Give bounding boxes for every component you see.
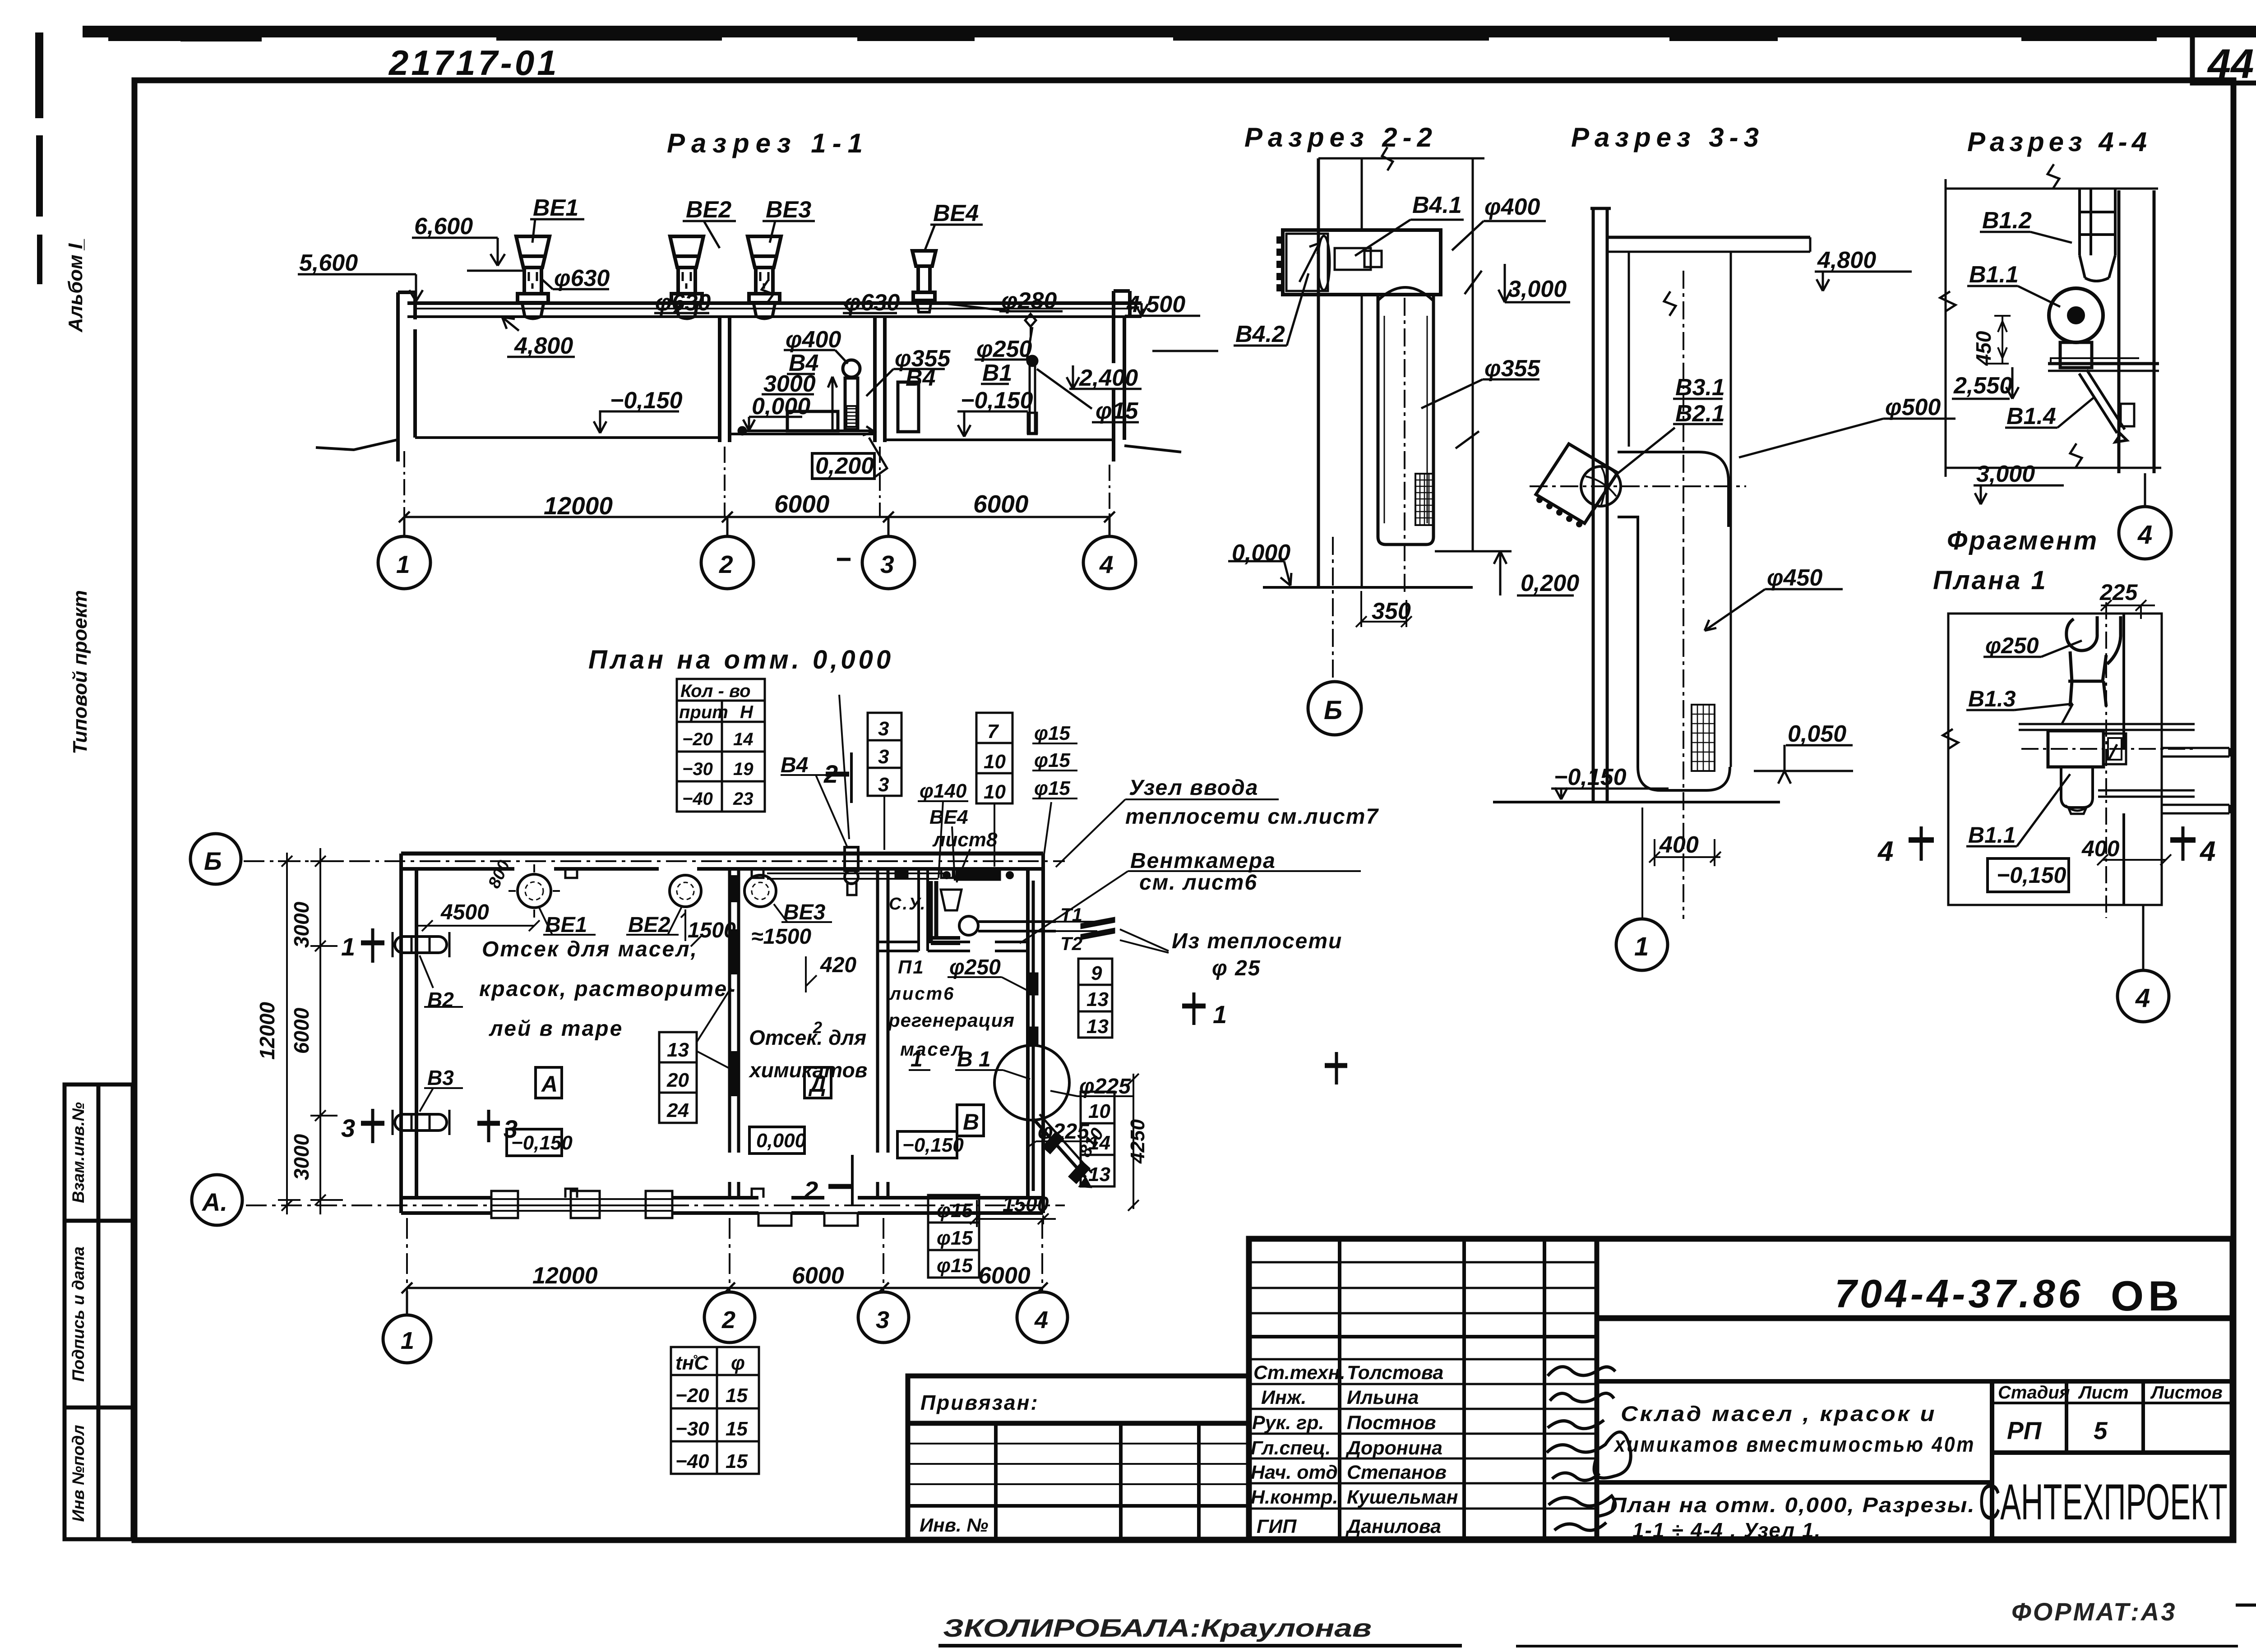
svg-text:4: 4 xyxy=(2135,983,2150,1013)
svg-text:3: 3 xyxy=(878,718,889,740)
svg-text:φ355: φ355 xyxy=(1484,355,1540,382)
svg-text:В4: В4 xyxy=(781,753,808,777)
svg-text:Подпись и дата: Подпись и дата xyxy=(69,1246,88,1382)
svg-text:9: 9 xyxy=(1091,962,1102,984)
svg-text:44: 44 xyxy=(2207,41,2254,87)
svg-text:Стадия: Стадия xyxy=(1998,1383,2070,1403)
svg-text:−20: −20 xyxy=(675,1384,709,1407)
svg-text:красок, растворите-: красок, растворите- xyxy=(479,977,736,1001)
svg-text:В1: В1 xyxy=(982,360,1012,386)
svg-text:3: 3 xyxy=(880,550,894,578)
svg-text:6000: 6000 xyxy=(792,1263,844,1289)
svg-text:Взам.инв.№: Взам.инв.№ xyxy=(69,1102,88,1203)
svg-text:φ450: φ450 xyxy=(1767,565,1822,591)
svg-text:0,050: 0,050 xyxy=(1788,721,1846,747)
svg-text:5,600: 5,600 xyxy=(299,250,358,276)
svg-text:2,550: 2,550 xyxy=(1953,373,2012,399)
svg-text:Плана 1: Плана 1 xyxy=(1933,566,2048,595)
svg-text:1: 1 xyxy=(1634,932,1649,961)
svg-text:ФОРМАТ:А3: ФОРМАТ:А3 xyxy=(2011,1597,2177,1626)
svg-text:Инв. №: Инв. № xyxy=(920,1514,988,1536)
svg-text:РП: РП xyxy=(2007,1417,2042,1444)
svg-text:Данилова: Данилова xyxy=(1345,1516,1441,1537)
svg-text:3: 3 xyxy=(876,1306,889,1334)
svg-text:4250: 4250 xyxy=(1127,1119,1149,1164)
svg-text:Кол - во: Кол - во xyxy=(680,681,751,701)
svg-text:φ630: φ630 xyxy=(844,290,900,316)
svg-text:4: 4 xyxy=(1034,1306,1048,1334)
svg-text:П1: П1 xyxy=(898,956,925,978)
svg-text:12000: 12000 xyxy=(544,492,613,520)
svg-text:225: 225 xyxy=(2099,580,2138,605)
svg-text:План на отм. 0,000: План на отм. 0,000 xyxy=(588,645,894,674)
svg-text:2: 2 xyxy=(719,550,733,578)
svg-text:САНТЕХПРОЕКТ: САНТЕХПРОЕКТ xyxy=(1979,1474,2228,1530)
svg-text:ВЕ2: ВЕ2 xyxy=(686,197,731,223)
svg-text:15: 15 xyxy=(726,1384,748,1407)
svg-text:φ400: φ400 xyxy=(1484,194,1540,220)
svg-text:1: 1 xyxy=(396,550,410,578)
svg-text:−0,150: −0,150 xyxy=(902,1134,964,1156)
svg-text:В2: В2 xyxy=(427,988,454,1011)
svg-text:Отсек. для: Отсек. для xyxy=(749,1026,866,1049)
svg-text:3: 3 xyxy=(878,746,889,768)
svg-text:Лист: Лист xyxy=(2078,1383,2129,1403)
svg-text:Т2: Т2 xyxy=(1060,933,1082,954)
svg-text:ВЕ3: ВЕ3 xyxy=(766,197,811,223)
svg-text:химикатов: химикатов xyxy=(748,1058,867,1082)
svg-text:φ15: φ15 xyxy=(1034,722,1070,744)
svg-text:прит: прит xyxy=(679,702,728,722)
svg-text:Н: Н xyxy=(740,702,754,722)
svg-text:−0,150: −0,150 xyxy=(610,388,683,414)
svg-text:15: 15 xyxy=(726,1450,748,1472)
svg-text:В3: В3 xyxy=(427,1066,454,1089)
svg-text:Доронина: Доронина xyxy=(1345,1437,1442,1459)
svg-text:В1.3: В1.3 xyxy=(1968,686,2016,711)
svg-text:В: В xyxy=(963,1109,979,1135)
svg-text:φ15: φ15 xyxy=(1034,777,1070,799)
svg-text:350: 350 xyxy=(1372,598,1411,624)
svg-text:0,000: 0,000 xyxy=(752,393,810,420)
svg-text:1: 1 xyxy=(401,1327,414,1354)
svg-text:1: 1 xyxy=(1213,1000,1227,1029)
svg-text:3000: 3000 xyxy=(290,1134,313,1180)
svg-text:Ст.техн.: Ст.техн. xyxy=(1253,1362,1345,1384)
svg-text:Рук. гр.: Рук. гр. xyxy=(1252,1412,1324,1434)
svg-text:φ15: φ15 xyxy=(937,1255,973,1277)
svg-text:φ: φ xyxy=(731,1352,745,1374)
svg-text:φ140: φ140 xyxy=(920,780,967,802)
svg-text:Постнов: Постнов xyxy=(1347,1412,1436,1434)
svg-text:7: 7 xyxy=(987,720,999,743)
svg-text:15: 15 xyxy=(726,1418,748,1440)
svg-text:Привязан:: Привязан: xyxy=(920,1391,1039,1414)
svg-text:−0,150: −0,150 xyxy=(1997,863,2066,888)
svg-text:масел: масел xyxy=(900,1038,965,1060)
svg-text:0,200: 0,200 xyxy=(1521,570,1579,596)
svg-text:704-4-37.86: 704-4-37.86 xyxy=(1835,1271,2084,1316)
svg-text:13: 13 xyxy=(1086,988,1109,1011)
svg-text:14: 14 xyxy=(733,729,754,749)
svg-text:13: 13 xyxy=(1086,1015,1109,1038)
svg-text:6,600: 6,600 xyxy=(414,213,473,240)
svg-text:теплосети см.лист7: теплосети см.лист7 xyxy=(1125,805,1379,829)
svg-text:ОВ: ОВ xyxy=(2111,1272,2183,1320)
svg-text:−30: −30 xyxy=(682,759,713,779)
svg-text:420: 420 xyxy=(820,953,856,977)
svg-text:Венткамера: Венткамера xyxy=(1130,849,1276,873)
svg-text:В1.1: В1.1 xyxy=(1968,822,2016,848)
svg-text:2: 2 xyxy=(823,760,838,788)
svg-text:В2.1: В2.1 xyxy=(1675,401,1725,427)
svg-text:400: 400 xyxy=(2081,836,2120,861)
svg-text:В1.1: В1.1 xyxy=(1969,262,2019,288)
svg-text:24: 24 xyxy=(666,1099,689,1121)
svg-text:ГИП: ГИП xyxy=(1257,1516,1297,1537)
svg-text:−0,150: −0,150 xyxy=(1554,764,1627,790)
svg-text:6000: 6000 xyxy=(774,490,830,518)
svg-text:План на отм. 0,000, Разрезы.: План на отм. 0,000, Разрезы. xyxy=(1610,1493,1975,1517)
svg-text:регенерация: регенерация xyxy=(888,1010,1015,1031)
svg-text:4: 4 xyxy=(1099,550,1114,578)
svg-text:Инв №подл: Инв №подл xyxy=(69,1425,88,1522)
svg-text:tн̊С: tн̊С xyxy=(675,1352,709,1374)
svg-text:Толстова: Толстова xyxy=(1347,1362,1443,1384)
svg-text:В3.1: В3.1 xyxy=(1675,374,1725,401)
svg-text:В 1: В 1 xyxy=(957,1047,991,1071)
svg-text:φ15: φ15 xyxy=(937,1200,973,1222)
svg-text:−20: −20 xyxy=(682,729,713,749)
svg-text:φ15: φ15 xyxy=(937,1227,973,1249)
svg-text:φ250: φ250 xyxy=(949,955,1001,979)
svg-text:лист6: лист6 xyxy=(889,984,955,1004)
svg-text:Д: Д xyxy=(808,1071,826,1097)
svg-text:φ250: φ250 xyxy=(976,336,1032,362)
svg-text:Альбом І̲: Альбом І̲ xyxy=(65,239,87,332)
svg-text:19: 19 xyxy=(733,759,754,779)
svg-text:3000: 3000 xyxy=(290,901,313,948)
svg-text:φ15: φ15 xyxy=(1096,398,1139,424)
svg-text:2: 2 xyxy=(721,1306,735,1334)
svg-text:Кушельман: Кушельман xyxy=(1347,1486,1458,1508)
svg-text:10: 10 xyxy=(984,781,1006,803)
svg-text:20: 20 xyxy=(666,1069,689,1091)
svg-text:1500: 1500 xyxy=(1003,1192,1049,1216)
svg-text:3: 3 xyxy=(504,1115,518,1143)
svg-text:5: 5 xyxy=(2094,1417,2108,1444)
svg-text:ВЕ4: ВЕ4 xyxy=(933,200,979,226)
svg-text:ВЕ1: ВЕ1 xyxy=(533,195,578,221)
svg-text:10: 10 xyxy=(1088,1100,1110,1122)
svg-text:10: 10 xyxy=(984,751,1006,773)
svg-text:3: 3 xyxy=(878,774,889,796)
svg-text:Б: Б xyxy=(204,847,222,875)
svg-text:3: 3 xyxy=(341,1114,355,1142)
svg-text:2: 2 xyxy=(804,1176,818,1204)
svg-text:0,000: 0,000 xyxy=(756,1130,806,1152)
svg-text:450: 450 xyxy=(1972,331,1995,366)
svg-text:4: 4 xyxy=(2137,520,2152,549)
svg-text:В4.1: В4.1 xyxy=(1412,192,1462,218)
svg-text:В4.2: В4.2 xyxy=(1235,321,1285,347)
svg-text:Разрез 1-1: Разрез 1-1 xyxy=(667,128,869,158)
svg-text:Н.контр.: Н.контр. xyxy=(1251,1486,1338,1508)
svg-text:В1.2: В1.2 xyxy=(1982,208,2032,234)
svg-text:φ 25: φ 25 xyxy=(1212,956,1261,980)
svg-text:φ250: φ250 xyxy=(1985,633,2039,658)
svg-text:Отсек для масел,: Отсек для масел, xyxy=(482,937,698,961)
svg-text:Разрез 4-4: Разрез 4-4 xyxy=(1967,127,2151,157)
svg-text:4: 4 xyxy=(1877,836,1893,867)
svg-text:φ500: φ500 xyxy=(1885,394,1941,420)
svg-text:0,200: 0,200 xyxy=(815,453,874,479)
svg-text:4,800: 4,800 xyxy=(1817,247,1876,273)
svg-text:6000: 6000 xyxy=(290,1007,313,1054)
svg-text:Типовой проект: Типовой проект xyxy=(69,590,91,754)
svg-text:13: 13 xyxy=(1088,1163,1110,1186)
svg-text:С.У.: С.У. xyxy=(889,895,926,914)
svg-text:Инж.: Инж. xyxy=(1261,1387,1307,1408)
svg-text:ЗКОЛИРОБАЛА:Краулонав: ЗКОЛИРОБАЛА:Краулонав xyxy=(943,1614,1372,1642)
svg-text:φ15: φ15 xyxy=(1034,749,1070,771)
svg-text:12000: 12000 xyxy=(532,1263,598,1289)
svg-text:Из теплосети: Из теплосети xyxy=(1172,929,1342,953)
svg-text:4,800: 4,800 xyxy=(514,333,573,359)
svg-text:Фрагмент: Фрагмент xyxy=(1947,526,2099,555)
svg-text:4500: 4500 xyxy=(440,900,489,924)
svg-text:12000: 12000 xyxy=(255,1002,279,1060)
svg-text:1: 1 xyxy=(341,932,355,961)
svg-text:ВЕ4: ВЕ4 xyxy=(929,806,968,828)
svg-text:Листов: Листов xyxy=(2150,1383,2223,1403)
svg-text:φ630: φ630 xyxy=(554,265,610,291)
svg-text:Нач. отд.: Нач. отд. xyxy=(1251,1462,1343,1483)
svg-text:2: 2 xyxy=(813,1018,823,1037)
svg-text:ВЕ2: ВЕ2 xyxy=(628,913,670,937)
svg-text:6000: 6000 xyxy=(978,1263,1031,1289)
svg-text:14: 14 xyxy=(1088,1132,1110,1154)
svg-text:Гл.спец.: Гл.спец. xyxy=(1251,1437,1331,1459)
svg-text:Склад масел , красок и: Склад масел , красок и xyxy=(1621,1402,1937,1426)
svg-text:Ильина: Ильина xyxy=(1347,1387,1419,1408)
svg-text:1: 1 xyxy=(911,1047,923,1071)
svg-text:см. лист6: см. лист6 xyxy=(1139,871,1257,895)
svg-text:6000: 6000 xyxy=(973,490,1029,518)
svg-text:1-1 ÷ 4-4 . Узел 1.: 1-1 ÷ 4-4 . Узел 1. xyxy=(1632,1518,1821,1542)
svg-text:Б: Б xyxy=(1324,696,1342,725)
svg-text:2,400: 2,400 xyxy=(1079,365,1138,391)
svg-text:Узел ввода: Узел ввода xyxy=(1129,776,1259,800)
svg-text:лей в таре: лей в таре xyxy=(489,1017,623,1041)
svg-text:Степанов: Степанов xyxy=(1347,1462,1447,1483)
svg-text:φ400: φ400 xyxy=(786,327,841,353)
svg-text:−40: −40 xyxy=(682,789,713,809)
svg-text:Разрез 3-3: Разрез 3-3 xyxy=(1571,122,1764,152)
svg-text:φ225: φ225 xyxy=(1079,1075,1131,1098)
svg-text:ВЕ3: ВЕ3 xyxy=(783,900,826,924)
svg-text:−0,150: −0,150 xyxy=(511,1132,573,1154)
svg-text:−0,150: −0,150 xyxy=(961,388,1033,414)
svg-text:−30: −30 xyxy=(675,1418,709,1440)
svg-text:13: 13 xyxy=(667,1039,689,1061)
svg-text:В1.4: В1.4 xyxy=(2006,403,2056,429)
svg-text:4: 4 xyxy=(2199,836,2215,867)
svg-text:А: А xyxy=(541,1071,558,1097)
svg-text:3,000: 3,000 xyxy=(1508,276,1567,302)
svg-text:Разрез 2-2: Разрез 2-2 xyxy=(1244,122,1438,152)
svg-text:21717-01: 21717-01 xyxy=(388,43,559,83)
svg-text:А.: А. xyxy=(201,1188,227,1216)
svg-text:−40: −40 xyxy=(675,1450,709,1472)
svg-text:23: 23 xyxy=(733,789,754,809)
svg-text:химикатов вместимостью 40т: химикатов вместимостью 40т xyxy=(1613,1432,1975,1456)
svg-text:3,000: 3,000 xyxy=(1976,461,2035,487)
svg-text:≈1500: ≈1500 xyxy=(751,925,811,949)
svg-text:400: 400 xyxy=(1659,832,1699,858)
